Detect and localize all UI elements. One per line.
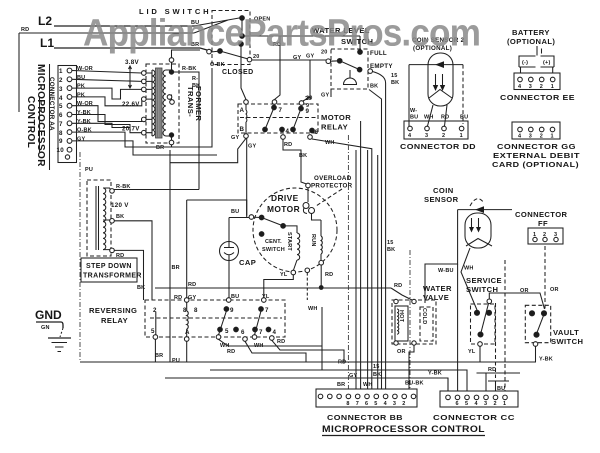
svg-text:L1: L1	[40, 36, 54, 50]
svg-text:CONTROL: CONTROL	[25, 96, 36, 148]
svg-text:A: A	[240, 107, 245, 114]
wire L2 line	[54, 25, 194, 27]
svg-text:3: 3	[529, 134, 532, 140]
wire cap bottom to reversing relay	[228, 261, 230, 299]
svg-text:(+): (+)	[543, 60, 550, 66]
wire relay pin A down	[186, 341, 188, 362]
svg-text:RUN: RUN	[310, 234, 316, 247]
wire RD feeder	[19, 27, 194, 112]
svg-text:5: 5	[151, 328, 155, 335]
svg-text:BK: BK	[370, 84, 378, 90]
svg-text:6: 6	[241, 329, 245, 336]
svg-text:YL: YL	[280, 272, 288, 278]
svg-text:2: 2	[540, 84, 543, 90]
svg-text:R-BK: R-BK	[116, 184, 131, 190]
wire R-BK from transformer primary top	[172, 50, 201, 190]
svg-text:Y-BK: Y-BK	[539, 357, 553, 363]
wire coin sensor to service switch	[458, 248, 477, 391]
svg-text:EMPTY: EMPTY	[370, 63, 393, 70]
svg-text:BK: BK	[391, 80, 399, 86]
wire BK from step down transformer	[114, 214, 152, 300]
wire AA pin3 PK to tap3	[72, 84, 142, 99]
label BR	[191, 42, 199, 48]
transformer T1	[142, 58, 180, 145]
svg-text:YL: YL	[262, 294, 270, 300]
svg-text:W-BU: W-BU	[438, 268, 454, 274]
svg-text:RD: RD	[277, 339, 285, 345]
svg-text:EXTERNAL DEBIT: EXTERNAL DEBIT	[493, 151, 580, 160]
wire relay RD contact	[227, 341, 306, 362]
wire RD bus y287	[155, 282, 391, 288]
svg-text:4: 4	[59, 95, 63, 102]
label REVERSING RELAY	[89, 306, 137, 325]
svg-text:BU-BK: BU-BK	[405, 381, 424, 387]
wire O-BK to motor relay pin A	[210, 46, 246, 100]
svg-text:2: 2	[153, 307, 157, 314]
svg-text:20.7V: 20.7V	[122, 126, 140, 133]
wire AA pin1 W-OR to transformer tap1	[72, 66, 142, 73]
service switch S3	[471, 299, 496, 346]
svg-text:6: 6	[315, 129, 319, 136]
svg-text:Y-BK: Y-BK	[77, 119, 91, 125]
svg-text:AppliancePartsPros.com: AppliancePartsPros.com	[83, 13, 480, 55]
wire 15 BK from empty contact down to connector BB	[373, 72, 400, 390]
svg-text:CONNECTOR EE: CONNECTOR EE	[500, 93, 575, 102]
svg-text:Y-BK: Y-BK	[77, 110, 91, 116]
labels W-BU WH RD BU	[410, 108, 468, 121]
svg-text:CENT.: CENT.	[265, 239, 282, 245]
wire YL from start winding	[264, 272, 294, 298]
svg-text:7: 7	[279, 107, 283, 114]
label 120 V	[111, 202, 129, 209]
wire RD from step down transformer	[114, 250, 143, 300]
wire GY from relay B to cent switch	[170, 138, 247, 215]
label 20	[321, 50, 328, 56]
chassis dash-dot boundary left	[79, 152, 81, 361]
svg-text:7: 7	[259, 329, 263, 336]
labels above connector BB	[337, 360, 381, 389]
svg-text:6: 6	[59, 112, 63, 119]
svg-text:CONNECTOR: CONNECTOR	[515, 210, 568, 219]
wire vertical to BB pin6	[367, 150, 369, 389]
svg-text:BR: BR	[337, 382, 345, 388]
svg-text:START: START	[286, 232, 292, 251]
svg-text:WH: WH	[363, 382, 373, 388]
svg-text:3: 3	[484, 401, 487, 407]
svg-text:BU: BU	[410, 115, 418, 121]
svg-text:RD: RD	[284, 142, 292, 148]
wire AA pin5 W-OR to tap5	[72, 101, 142, 121]
label GY at relay pin B	[231, 135, 256, 150]
wire GY drop from water level switch to motor relay pin9	[303, 60, 312, 109]
connector GG	[512, 122, 560, 140]
label CONNECTOR GG EXTERNAL DEBIT CARD (OPTIONAL)	[492, 142, 580, 169]
coin sensor 2	[409, 53, 463, 106]
wire WH from relay pin6 to connector BB	[312, 139, 372, 389]
start winding	[283, 226, 300, 275]
connector EE	[514, 73, 560, 90]
svg-text:GY: GY	[188, 295, 196, 301]
label VAULT SWITCH	[551, 328, 583, 346]
label OVERLOAD PROTECTOR	[311, 175, 353, 206]
svg-text:2: 2	[59, 77, 63, 84]
svg-text:BK: BK	[387, 247, 395, 253]
label 22.6V	[122, 101, 140, 108]
svg-text:STEP DOWN: STEP DOWN	[86, 263, 132, 270]
drive motor M1	[253, 188, 337, 272]
label CONNECTOR AA	[48, 77, 55, 131]
svg-text:OVERLOAD: OVERLOAD	[314, 175, 352, 182]
svg-text:4: 4	[286, 128, 290, 135]
svg-text:PK: PK	[77, 84, 85, 90]
connector AA	[57, 66, 77, 163]
svg-text:VAULT: VAULT	[553, 328, 579, 337]
svg-text:GN: GN	[41, 325, 50, 331]
connector DD	[404, 121, 468, 139]
wire coin sensor 2 bottom leads	[428, 105, 448, 126]
svg-text:3: 3	[59, 86, 63, 93]
wire coin sensor 2 right dashed lead	[462, 65, 464, 124]
svg-text:7: 7	[265, 307, 269, 314]
battery BT1	[519, 46, 554, 73]
wire OPEN rail to water level switch	[244, 35, 360, 37]
label CLOSED	[222, 69, 254, 76]
wire FF pin2 dash to vault switch	[544, 246, 546, 310]
svg-text:8: 8	[346, 401, 349, 407]
overload protector OL1	[303, 183, 321, 220]
chassis dash-dot boundary coin section	[409, 250, 411, 390]
svg-text:CONNECTOR BB: CONNECTOR BB	[327, 413, 403, 422]
svg-text:A: A	[185, 329, 190, 336]
svg-text:B: B	[240, 126, 245, 133]
wire RD from run winding	[319, 265, 333, 289]
svg-text:5: 5	[374, 401, 377, 407]
svg-text:15: 15	[373, 364, 380, 370]
label SERVICE SWITCH	[466, 276, 502, 294]
wire dashed to CC pin	[496, 260, 506, 391]
svg-text:BU: BU	[460, 115, 468, 121]
svg-text:9: 9	[230, 307, 234, 314]
wire AA pin8 O-BK	[72, 68, 212, 147]
svg-text:6: 6	[365, 401, 368, 407]
svg-text:1: 1	[59, 68, 63, 75]
svg-text:120 V: 120 V	[111, 202, 129, 209]
svg-text:O-BK: O-BK	[210, 62, 225, 68]
node L1	[40, 36, 54, 50]
svg-text:PROTECTOR: PROTECTOR	[311, 183, 353, 190]
label WATER VALVE	[423, 284, 452, 302]
connector CC	[440, 391, 518, 407]
svg-text:10: 10	[57, 147, 65, 154]
svg-text:PU: PU	[85, 167, 93, 173]
svg-text:RD: RD	[227, 349, 235, 355]
svg-text:PK: PK	[77, 92, 85, 98]
svg-text:5: 5	[465, 401, 468, 407]
svg-text:CLOSED: CLOSED	[222, 69, 254, 76]
svg-text:BR: BR	[155, 353, 163, 359]
label CONNECTOR FF	[515, 210, 568, 228]
wire YL from service switch	[468, 346, 480, 362]
svg-text:22.6V: 22.6V	[122, 101, 140, 108]
wire AA pin6 Y-BK	[72, 110, 142, 133]
svg-text:VALVE: VALVE	[423, 293, 449, 302]
wire relay pin5 down to bus	[154, 339, 156, 362]
ground GND	[35, 308, 71, 352]
svg-text:15: 15	[387, 240, 394, 246]
svg-text:CONNECTOR GG: CONNECTOR GG	[497, 142, 576, 151]
svg-text:SWITCH: SWITCH	[262, 247, 285, 253]
svg-text:CONNECTOR CC: CONNECTOR CC	[433, 413, 515, 422]
svg-text:BU: BU	[231, 294, 239, 300]
connector FF	[528, 228, 563, 244]
centrifugal switch	[249, 215, 285, 253]
svg-text:REVERSING: REVERSING	[89, 306, 137, 315]
label CONNECTOR BB	[327, 413, 403, 422]
svg-text:3: 3	[425, 133, 428, 139]
svg-text:FF: FF	[538, 219, 548, 228]
svg-text:GY: GY	[231, 135, 239, 141]
label 20	[253, 54, 260, 60]
label 3.8V with span mark	[125, 59, 140, 88]
svg-text:RD: RD	[441, 115, 449, 121]
svg-text:SWITCH: SWITCH	[551, 337, 583, 346]
water valve V1	[392, 299, 436, 345]
svg-text:RD: RD	[188, 282, 196, 288]
wire BR from transformer primary bottom	[156, 145, 180, 362]
svg-text:OR: OR	[550, 287, 559, 293]
wire RD BK from relay pin4 to overload	[283, 139, 307, 184]
svg-text:CARD (OPTIONAL): CARD (OPTIONAL)	[492, 160, 579, 169]
label FULL	[370, 50, 387, 57]
svg-text:2: 2	[402, 401, 405, 407]
label MICROPROCESSOR CONTROL	[322, 424, 485, 436]
coin sensor CS1	[458, 206, 512, 248]
svg-text:BU: BU	[231, 209, 239, 215]
label CONNECTOR CC	[433, 413, 515, 422]
svg-text:MICROPROCESSOR CONTROL: MICROPROCESSOR CONTROL	[322, 424, 485, 435]
wire RD into water valve	[391, 283, 412, 300]
svg-text:CONNECTOR AA: CONNECTOR AA	[48, 77, 55, 131]
svg-text:BATTERY: BATTERY	[512, 28, 550, 37]
wire relay WH contact to BB	[219, 306, 323, 370]
svg-text:O-BK: O-BK	[77, 128, 92, 134]
label BR PU at relay bottom	[155, 353, 180, 364]
label OPEN	[254, 17, 270, 23]
svg-text:MOTOR: MOTOR	[321, 113, 351, 122]
svg-text:COIN: COIN	[433, 186, 454, 195]
reversing relay K2	[145, 298, 285, 342]
svg-text:WH: WH	[464, 266, 474, 272]
wire BU cap to cent switch	[187, 200, 250, 298]
wire AA pin7 Y-BK	[72, 119, 130, 128]
svg-text:5: 5	[59, 103, 63, 110]
wire Y-BK to connector CC	[428, 371, 448, 392]
svg-text:BK: BK	[373, 372, 381, 378]
svg-text:HOT: HOT	[398, 310, 404, 323]
svg-text:WATER: WATER	[423, 284, 452, 293]
label TRANS-FORMER	[186, 86, 203, 121]
label COIN SENSOR 2 (OPTIONAL)	[412, 37, 465, 52]
run winding	[310, 220, 324, 265]
svg-text:GND: GND	[35, 308, 62, 322]
svg-text:RD: RD	[325, 272, 333, 278]
svg-text:GY: GY	[349, 373, 357, 379]
wire closed contact GY to water level switch	[252, 54, 326, 62]
label BK mid	[137, 285, 145, 291]
node L2	[38, 14, 52, 28]
wire BU to connector CC	[488, 381, 509, 392]
svg-text:RD: RD	[338, 360, 346, 366]
labels RD GY BU YL above reversing relay	[174, 294, 270, 301]
svg-text:3: 3	[393, 401, 396, 407]
svg-text:GY: GY	[77, 136, 85, 142]
label CONTROL (left vertical)	[25, 96, 40, 152]
wire AA pin2 BU to tap2	[72, 75, 142, 81]
svg-text:SENSOR: SENSOR	[424, 195, 459, 204]
label PU near connector AA	[85, 167, 93, 173]
svg-text:3.8V: 3.8V	[125, 59, 140, 66]
svg-text:7: 7	[356, 401, 359, 407]
capacitor C1	[220, 242, 257, 268]
svg-text:DRIVE: DRIVE	[271, 193, 299, 203]
svg-text:2: 2	[540, 134, 543, 140]
label R-BK	[116, 184, 131, 190]
label MOTOR RELAY	[321, 113, 351, 132]
motor relay K1	[238, 96, 319, 140]
svg-text:TRANS-: TRANS-	[186, 86, 195, 117]
wire Y-BK from vault switch	[536, 346, 553, 362]
svg-text:9: 9	[59, 138, 63, 145]
svg-text:(OPTIONAL): (OPTIONAL)	[507, 37, 555, 46]
wire R-BK bus from step-down transformer	[114, 189, 199, 191]
svg-text:9: 9	[306, 108, 310, 115]
wire L1 line	[54, 48, 207, 50]
svg-text:RD: RD	[21, 27, 29, 33]
svg-text:PU: PU	[172, 358, 180, 364]
node at motor boundary	[305, 268, 310, 273]
label COIN SENSOR	[424, 186, 484, 206]
bus y370	[210, 370, 467, 391]
wire OR from water valve to BB	[397, 345, 414, 389]
svg-text:Y-BK: Y-BK	[428, 371, 442, 377]
wire BU-BK stub to BB	[405, 381, 424, 387]
svg-text:OR: OR	[397, 349, 406, 355]
svg-text:20: 20	[253, 54, 260, 60]
svg-text:W-: W-	[410, 108, 417, 114]
svg-text:BR: BR	[156, 145, 164, 151]
svg-text:BK: BK	[137, 285, 145, 291]
svg-text:R-BK: R-BK	[182, 66, 197, 72]
wire from boundary node down	[306, 273, 308, 300]
vault switch S4	[525, 305, 550, 346]
svg-text:15: 15	[391, 73, 398, 79]
svg-text:BK: BK	[116, 214, 124, 220]
svg-text:2: 2	[442, 133, 445, 139]
label CONNECTOR EE	[500, 93, 575, 102]
svg-text:8: 8	[59, 130, 63, 137]
svg-text:7: 7	[59, 121, 63, 128]
svg-text:BR: BR	[172, 265, 180, 271]
svg-text:8: 8	[194, 307, 198, 314]
step down transformer T2	[87, 180, 114, 256]
label LID SWITCH	[139, 7, 209, 16]
svg-text:4: 4	[273, 329, 277, 336]
svg-text:MOTOR: MOTOR	[267, 204, 300, 214]
svg-text:1: 1	[551, 134, 554, 140]
svg-text:6: 6	[456, 401, 459, 407]
svg-text:TRANSFORMER: TRANSFORMER	[83, 273, 142, 280]
label 15 BK mid	[387, 240, 395, 253]
svg-text:L2: L2	[38, 14, 52, 28]
svg-text:1: 1	[551, 84, 554, 90]
label BU	[191, 20, 199, 26]
svg-text:RD: RD	[174, 295, 182, 301]
chassis dash-dot boundary mid	[347, 135, 349, 389]
svg-text:WH: WH	[424, 115, 434, 121]
svg-text:BK: BK	[299, 153, 307, 159]
svg-text:RELAY: RELAY	[321, 123, 348, 132]
svg-text:RELAY: RELAY	[101, 316, 128, 325]
label BATTERY (OPTIONAL)	[507, 28, 555, 46]
svg-text:COLD: COLD	[421, 308, 427, 324]
wire GY stub below switch	[321, 89, 331, 99]
svg-text:(-): (-)	[522, 60, 528, 66]
svg-text:1: 1	[460, 133, 463, 139]
svg-text:GY: GY	[248, 144, 256, 150]
lid switch S1	[194, 11, 252, 65]
label EMPTY	[370, 63, 393, 70]
step down transformer label box	[81, 258, 142, 282]
svg-text:CONNECTOR DD: CONNECTOR DD	[400, 142, 476, 151]
wire AA pin9 GY	[72, 136, 217, 155]
label CONNECTOR DD	[400, 142, 476, 151]
connector BB	[316, 389, 417, 407]
svg-text:3: 3	[529, 84, 532, 90]
wire RD to connector CC	[477, 367, 521, 391]
label WATER LEVEL SWITCH	[312, 26, 373, 46]
bus y378	[165, 378, 448, 391]
wire vertical bundle	[356, 90, 382, 390]
label 20.7V	[122, 126, 140, 133]
svg-text:W-OR: W-OR	[77, 101, 93, 107]
svg-text:YL: YL	[468, 349, 476, 355]
svg-text:WH: WH	[308, 306, 318, 312]
svg-text:RD: RD	[394, 283, 402, 289]
wire AA pin4 PK to tap4	[72, 92, 142, 105]
water level switch S2	[326, 36, 373, 389]
svg-text:1: 1	[503, 401, 506, 407]
svg-text:2: 2	[494, 401, 497, 407]
wire relay contact 4 RD	[272, 339, 344, 362]
wire RD drop to motor relay pin7	[273, 36, 281, 100]
svg-text:5: 5	[225, 328, 229, 335]
svg-text:SERVICE: SERVICE	[466, 276, 502, 285]
main bottom bus y362	[80, 361, 536, 363]
svg-text:CAP: CAP	[239, 258, 256, 267]
wire coin sensor 2 left lead	[408, 65, 410, 126]
label MICROPROCESSOR (left vertical)	[35, 64, 50, 170]
svg-text:R-: R-	[192, 76, 198, 82]
wire W-BU to valve cold	[425, 210, 458, 303]
wire OR run service to vault	[489, 287, 558, 309]
svg-text:20: 20	[306, 96, 313, 102]
svg-text:GY: GY	[321, 93, 329, 99]
